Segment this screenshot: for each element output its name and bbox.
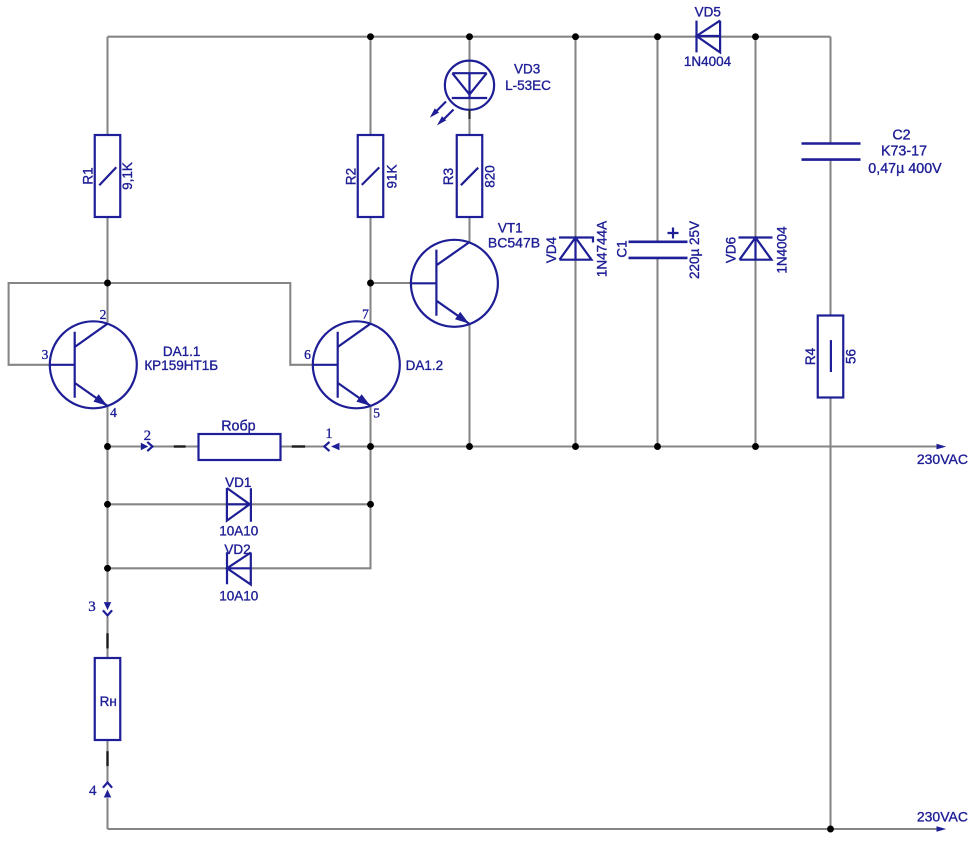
- svg-text:6: 6: [304, 347, 311, 362]
- svg-text:Rн: Rн: [100, 694, 117, 709]
- svg-text:C1: C1: [614, 240, 629, 257]
- svg-text:10A10: 10A10: [219, 524, 258, 539]
- svg-text:K73-17: K73-17: [881, 144, 927, 160]
- svg-text:1N4004: 1N4004: [775, 226, 790, 274]
- svg-text:91K: 91K: [385, 164, 400, 188]
- svg-text:5: 5: [373, 405, 380, 420]
- svg-text:820: 820: [483, 165, 498, 188]
- svg-text:VD2: VD2: [224, 542, 250, 557]
- svg-text:R3: R3: [441, 168, 456, 185]
- svg-text:3: 3: [88, 599, 96, 615]
- svg-text:230VAC: 230VAC: [917, 808, 968, 824]
- svg-text:DA1.1: DA1.1: [163, 344, 201, 359]
- svg-text:3: 3: [42, 347, 49, 362]
- svg-text:9,1K: 9,1K: [120, 162, 135, 190]
- svg-text:2: 2: [100, 307, 107, 322]
- svg-text:BC547B: BC547B: [488, 235, 540, 251]
- svg-text:VT1: VT1: [498, 220, 523, 235]
- svg-text:230VAC: 230VAC: [917, 451, 968, 467]
- svg-text:R2: R2: [344, 168, 359, 185]
- svg-text:C2: C2: [892, 127, 910, 143]
- svg-text:4: 4: [110, 405, 117, 420]
- svg-text:7: 7: [362, 307, 369, 322]
- svg-text:КР159НТ1Б: КР159НТ1Б: [144, 358, 218, 373]
- svg-text:DA1.2: DA1.2: [406, 358, 444, 373]
- svg-text:1N4004: 1N4004: [684, 54, 732, 69]
- svg-text:VD3: VD3: [514, 62, 540, 77]
- svg-text:2: 2: [144, 428, 152, 444]
- svg-text:0,47µ 400V: 0,47µ 400V: [868, 161, 942, 177]
- svg-text:1: 1: [325, 426, 333, 442]
- svg-text:L-53EC: L-53EC: [505, 78, 551, 93]
- svg-text:VD6: VD6: [724, 237, 739, 263]
- svg-text:VD1: VD1: [225, 475, 251, 490]
- svg-text:220µ 25V: 220µ 25V: [687, 221, 702, 279]
- svg-text:R1: R1: [81, 167, 96, 184]
- svg-text:R4: R4: [803, 347, 818, 365]
- svg-text:56: 56: [844, 349, 859, 364]
- svg-text:10A10: 10A10: [219, 588, 258, 603]
- svg-text:VD5: VD5: [695, 4, 721, 19]
- svg-text:1N4744A: 1N4744A: [594, 221, 609, 277]
- svg-text:4: 4: [89, 783, 97, 799]
- svg-text:Roбр: Roбр: [221, 419, 255, 435]
- svg-text:VD4: VD4: [544, 236, 559, 263]
